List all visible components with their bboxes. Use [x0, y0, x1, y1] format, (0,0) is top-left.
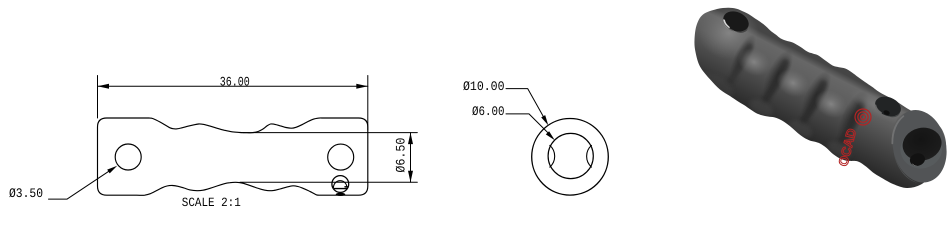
arrowhead d6.50 bottom	[408, 171, 413, 183]
arrowhead d6.50 top	[408, 133, 413, 145]
neck shade 0 (cap/bulge1)	[725, 31, 761, 81]
face top rim highlight	[887, 116, 909, 143]
thread symbol outer circle	[332, 176, 349, 193]
bulge highlight 3	[810, 85, 852, 124]
extension line bottom (d6.50)	[240, 181, 417, 183]
3d body silhouette	[694, 8, 946, 188]
right end face	[885, 105, 948, 188]
arrowhead 36.00 left	[98, 84, 110, 89]
end view inner circle	[548, 133, 593, 178]
end view left bite arc	[550, 145, 555, 167]
neck groove 2	[804, 84, 824, 120]
dimension line d6.50 vertical	[410, 133, 412, 183]
thread symbol bottom blob	[336, 193, 346, 196]
svg-text:Ø6.00: Ø6.00	[472, 104, 505, 119]
face chamfer highlight	[886, 112, 913, 144]
extension line top (d6.50)	[243, 132, 417, 134]
end view outer circle	[532, 119, 609, 196]
cap highlight	[699, 7, 759, 59]
leader d6.00 arrowhead	[546, 131, 555, 140]
left hole circle	[115, 144, 141, 170]
bulge highlight 2	[772, 64, 814, 103]
svg-text:Ø6.50: Ø6.50	[394, 138, 409, 173]
thread symbol mid bar	[335, 187, 348, 189]
svg-text:36.00: 36.00	[220, 75, 250, 90]
right top small hole	[872, 93, 904, 120]
bulge1 lower reflected light	[746, 96, 776, 120]
leader d3.50 line	[49, 169, 113, 199]
right hole circle	[328, 144, 354, 170]
leader d10.00 arrowhead	[541, 115, 548, 125]
bore dark interior	[899, 124, 945, 165]
svg-text:Ø10.00: Ø10.00	[463, 79, 505, 94]
leader d10.00 line	[506, 89, 546, 121]
bore lit wall	[896, 125, 946, 172]
svg-text:SCALE 2:1: SCALE 2:1	[182, 196, 241, 210]
cross hole glint	[912, 162, 917, 167]
left cap top hole	[720, 8, 752, 36]
arrowhead 36.00 right	[356, 84, 368, 89]
neck groove 0	[731, 47, 750, 81]
bulge2 lower reflected light	[785, 117, 815, 141]
dimension line 36.00	[98, 85, 368, 87]
bulge highlight 1	[733, 43, 775, 82]
thread symbol inner arc	[333, 181, 346, 188]
face left lip light	[893, 147, 918, 187]
neck shade 3	[831, 86, 875, 145]
neck shade 2	[795, 66, 837, 123]
neck groove 1	[766, 63, 786, 99]
leader d6.00 line	[506, 114, 552, 136]
right cyl top highlight band	[846, 82, 915, 132]
bulge3 lower reflected light	[824, 138, 854, 162]
red watermark swirl	[835, 109, 871, 168]
extension line left (36.00)	[97, 76, 99, 119]
cap lower reflected light	[695, 68, 738, 104]
front view outline	[98, 118, 368, 195]
svg-text:Ø3.50: Ø3.50	[9, 186, 43, 201]
leader d3.50 arrowhead	[107, 166, 117, 174]
end view right bite arc	[587, 145, 592, 167]
extension line right (36.00)	[367, 76, 369, 131]
neck groove 3	[842, 106, 861, 142]
neck shade 1	[757, 45, 799, 102]
bore bottom cross hole	[909, 152, 927, 168]
